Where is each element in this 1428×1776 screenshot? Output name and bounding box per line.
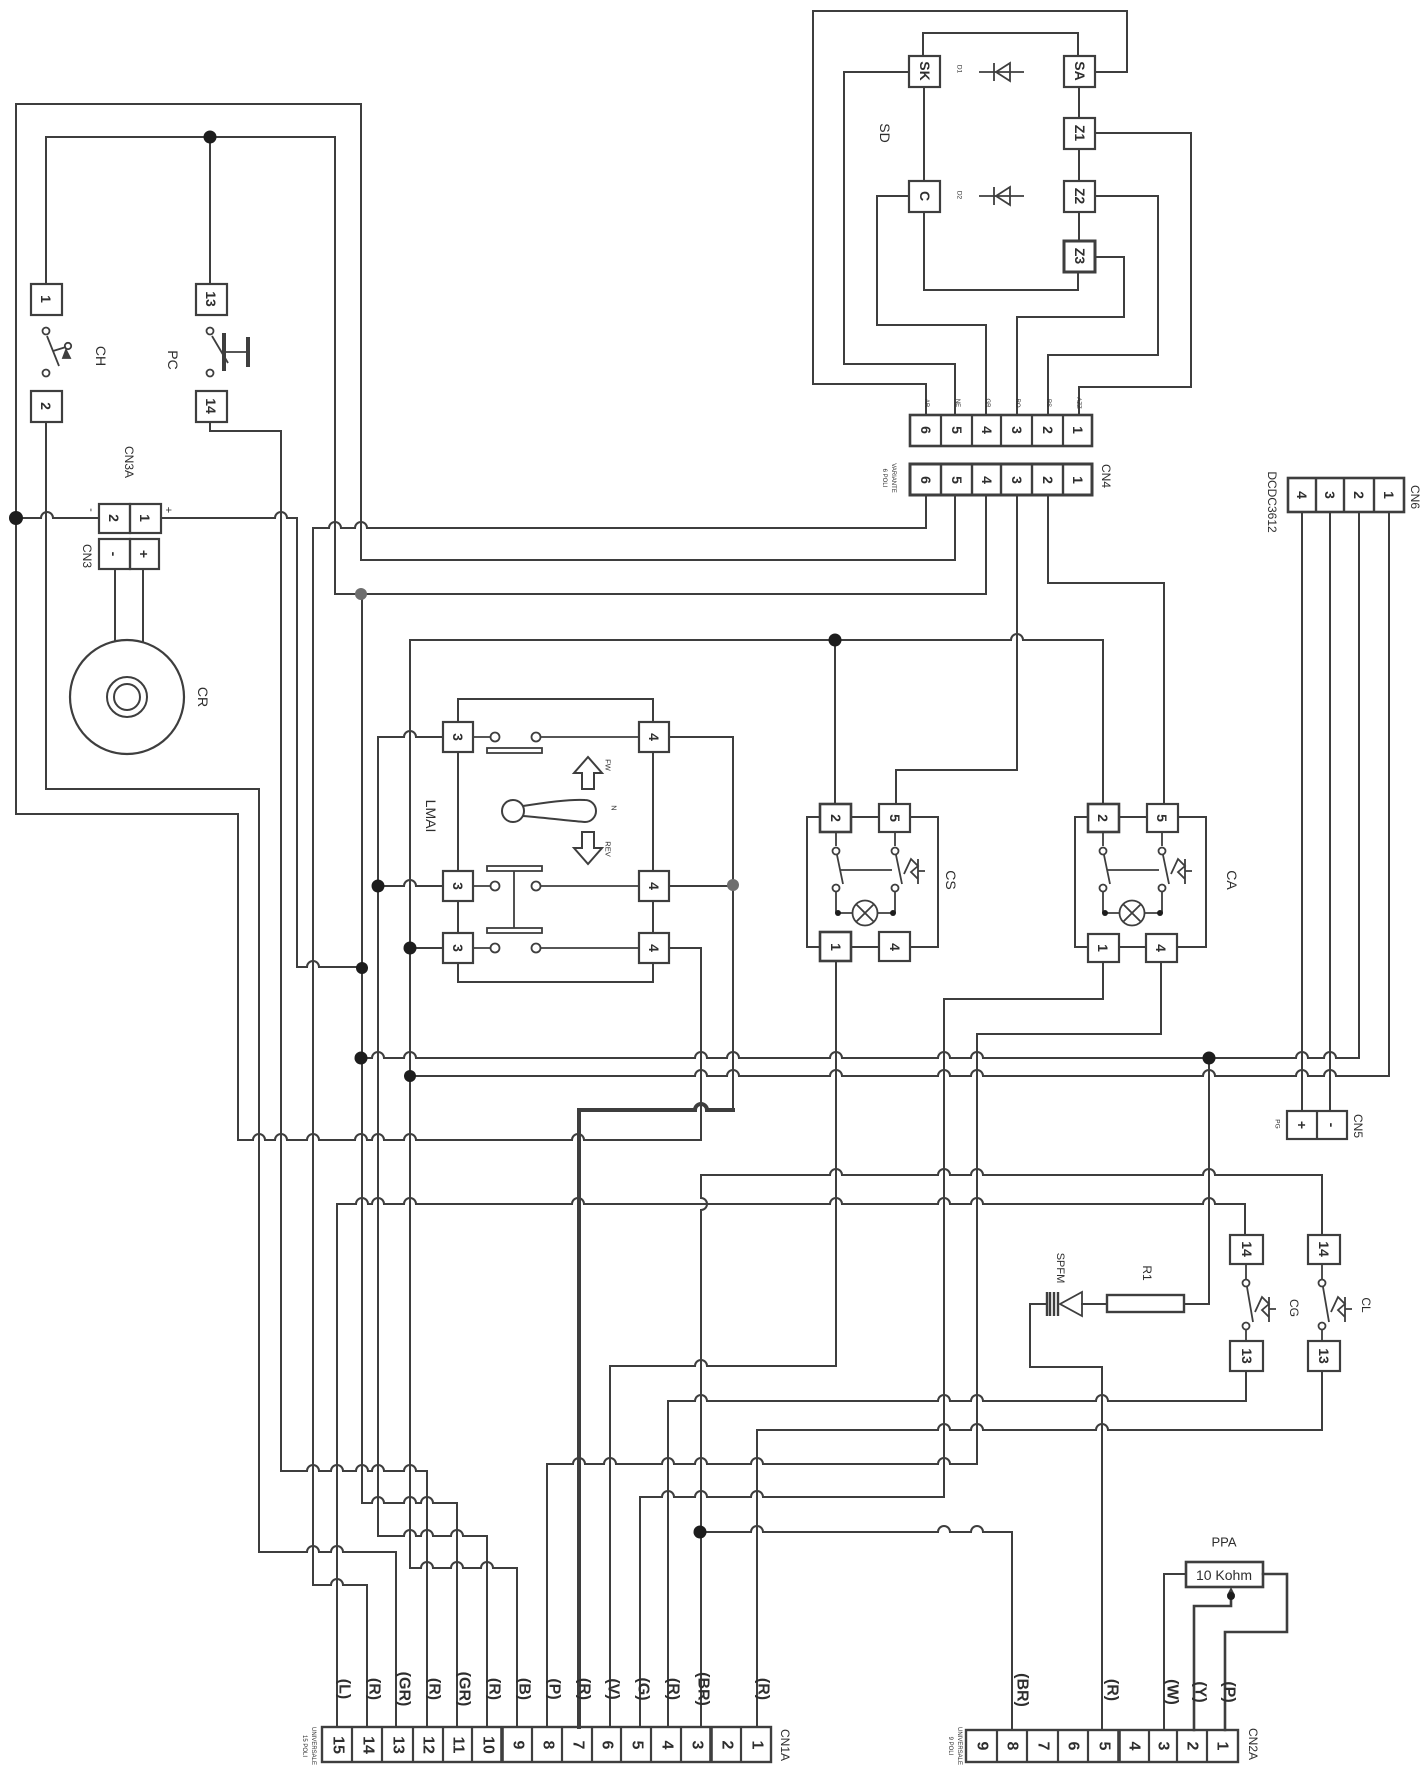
wire: CN3 to CR motor leads	[115, 569, 143, 641]
svg-text:2: 2	[1040, 476, 1056, 484]
svg-text:RO: RO	[1014, 399, 1020, 408]
wire: riser x701 LMAI row3 to bus1140	[700, 948, 702, 1140]
svg-text:3: 3	[450, 944, 466, 952]
svg-text:DCDC3612: DCDC3612	[1265, 471, 1279, 533]
wire: x335 vertical to y594 line	[334, 137, 336, 594]
svg-text:GR: GR	[984, 399, 990, 409]
node x361 y1058	[355, 1052, 368, 1065]
svg-text:CA: CA	[1224, 870, 1240, 890]
motor CR body	[70, 640, 184, 754]
svg-text:8: 8	[1004, 1742, 1021, 1751]
wire: y1552 staircase to pin13	[259, 1546, 396, 1552]
svg-text:CN3A: CN3A	[122, 446, 136, 478]
wire: outer frame top y104	[16, 103, 361, 105]
svg-text:D1: D1	[956, 65, 963, 74]
selector LMAI FW arrow	[574, 757, 602, 789]
svg-text:5: 5	[949, 426, 965, 434]
wire: CN3A row right to corner x297	[161, 512, 297, 518]
svg-text:9 POLI: 9 POLI	[947, 1737, 953, 1756]
wire: CN4 pin2 to CA5	[1048, 495, 1164, 802]
wire: Z2 right to upper pin2	[1048, 196, 1158, 415]
wire: pin6 drop x610	[609, 1366, 611, 1727]
wire: row y1430 CL13 to pin1	[757, 1424, 1322, 1430]
svg-text:13: 13	[203, 291, 219, 307]
svg-text:(W): (W)	[1164, 1679, 1181, 1705]
svg-text:4: 4	[1294, 491, 1310, 499]
svg-text:3: 3	[450, 882, 466, 890]
svg-text:CR: CR	[195, 687, 211, 707]
wire: CG14 drop x1245	[1244, 1204, 1246, 1235]
svg-text:(L): (L)	[336, 1679, 353, 1699]
wire: CS2 drop from node y640	[834, 640, 836, 802]
svg-text:CN5: CN5	[1351, 1114, 1365, 1138]
wire: LMAI row2 left from x378	[378, 880, 443, 886]
svg-text:6: 6	[599, 1741, 616, 1750]
svg-text:(GR): (GR)	[396, 1672, 413, 1707]
wire: pin14 drop x367	[366, 1585, 368, 1727]
wire: x378 down to y1536	[377, 737, 379, 1536]
wire: line y640 LMAI row3 to CA2	[410, 634, 1103, 802]
wire: frame left vertical x16 top to node	[15, 104, 17, 518]
connector CN3 cell minus	[99, 539, 130, 569]
svg-text:(BR): (BR)	[695, 1672, 712, 1706]
svg-text:14: 14	[360, 1736, 377, 1754]
svg-text:1: 1	[137, 514, 153, 522]
wire: LMAI row2 right	[668, 885, 733, 887]
pushbutton PC contacts and plunger	[207, 328, 249, 377]
svg-text:2: 2	[828, 814, 844, 822]
svg-text:4: 4	[979, 426, 995, 434]
svg-text:CS: CS	[943, 870, 959, 889]
svg-text:6: 6	[918, 476, 934, 484]
connector CN3A cell 1	[130, 504, 161, 533]
svg-text:13: 13	[1316, 1348, 1332, 1364]
svg-text:1: 1	[38, 295, 54, 303]
svg-text:4: 4	[646, 944, 662, 952]
wire: CN2A pin8 drop x1012	[1011, 1532, 1013, 1730]
svg-text:4: 4	[1126, 1742, 1143, 1751]
svg-text:(BR): (BR)	[1014, 1673, 1031, 1707]
wire: LMAI row3 right	[668, 947, 701, 949]
selector LMAI row3 contacts	[487, 928, 542, 953]
wire: C left to upper pin4	[877, 196, 986, 415]
wire: bus y1140 to LMAI row3 riser	[238, 1134, 701, 1140]
svg-text:(R): (R)	[486, 1678, 503, 1700]
selector LMAI row1 contacts	[487, 733, 542, 754]
svg-text:6: 6	[1065, 1742, 1082, 1751]
svg-text:2: 2	[38, 402, 54, 410]
wire: CN6 pin2 riser x1359	[1358, 513, 1360, 1058]
svg-text:R1: R1	[1140, 1265, 1154, 1281]
wire: pin4 drop x668	[667, 1401, 669, 1727]
wire: pin5 drop x640	[639, 1497, 641, 1727]
connector CN1A row	[322, 1727, 771, 1762]
wire: x733 down to bold corner	[732, 737, 734, 1110]
wire: PC14 down then right	[210, 422, 281, 431]
wire: C bottom loop to Z3	[924, 212, 1078, 290]
wire: CN4 pin6 stub	[925, 495, 927, 528]
grey node x361 y594	[355, 588, 367, 600]
connector CN1A pin numbers	[301, 1672, 792, 1765]
svg-text:(G): (G)	[635, 1677, 652, 1700]
wire: x701 vertical y1175 to pin3 with hop over bus1204	[701, 1175, 707, 1727]
svg-text:2: 2	[1040, 426, 1056, 434]
svg-text:10: 10	[480, 1736, 497, 1754]
wire: row y1532 node to CN2A pin8	[700, 1526, 1012, 1532]
connector SD-side 6pole row	[910, 415, 1092, 446]
wire: x361 vertical from frame to CN4 pin5 row	[360, 104, 362, 560]
wire: bus y1058 to CN6 pin2	[361, 1052, 1359, 1058]
svg-text:SPFM: SPFM	[1054, 1253, 1066, 1284]
svg-text:3: 3	[1009, 476, 1025, 484]
svg-text:(R): (R)	[1104, 1679, 1121, 1701]
svg-text:(P): (P)	[1221, 1681, 1238, 1702]
wire: pin1 drop x757	[756, 1430, 758, 1727]
wire: row y1464 to pin8	[547, 1458, 977, 1464]
wire: SD frame left to pin6	[813, 384, 926, 415]
svg-text:3: 3	[1009, 426, 1025, 434]
node CS2 feed y640	[829, 634, 842, 647]
switch unit CA outline	[1075, 817, 1206, 947]
wire: SK to C	[923, 87, 925, 181]
potentiometer PPA box	[1186, 1562, 1263, 1587]
svg-text:N: N	[610, 805, 619, 810]
wire: CA1 drop then left	[944, 962, 1103, 999]
wire: CA4 drop then left	[977, 962, 1161, 1034]
svg-text:RS: RS	[1045, 399, 1051, 407]
wire: y789 run right	[46, 788, 259, 790]
wire: y1503 staircase to pin11	[362, 1497, 457, 1503]
wire: Z3 right to upper pin3	[1017, 257, 1124, 415]
connector CN2A row	[966, 1730, 1238, 1762]
svg-text:5: 5	[887, 814, 903, 822]
wire: x977 down to y1464	[976, 1034, 978, 1464]
wire: pin8 drop x547	[546, 1464, 548, 1727]
svg-text:4: 4	[979, 476, 995, 484]
svg-text:7: 7	[570, 1741, 587, 1750]
svg-text:PPA: PPA	[1211, 1535, 1236, 1550]
svg-text:6 POLI: 6 POLI	[881, 469, 887, 488]
svg-text:PC: PC	[165, 350, 181, 369]
svg-text:2: 2	[1184, 1742, 1201, 1751]
wire: PPA wiper to CN2A pin2	[1194, 1596, 1231, 1730]
wire: row y1401 CG13 to pin4	[668, 1395, 1246, 1401]
svg-text:(P): (P)	[546, 1678, 563, 1699]
resistor R1	[1107, 1295, 1184, 1312]
svg-text:1: 1	[828, 943, 844, 951]
wire: x313 CN4pin6 vertical down	[312, 528, 314, 1585]
wire: CN4 pin3 long drop to CS5	[896, 495, 1017, 802]
svg-text:C: C	[917, 191, 933, 201]
svg-text:VARIANTE: VARIANTE	[890, 463, 896, 493]
relay contact CL box 14	[1308, 1235, 1340, 1264]
node x362 y968	[356, 962, 368, 974]
svg-text:Z3: Z3	[1072, 248, 1088, 265]
wire: y967 run to node x362	[297, 961, 362, 967]
svg-text:AZZ: AZZ	[1075, 397, 1081, 409]
svg-text:CG: CG	[1287, 1299, 1301, 1317]
wire: pin10 drop x487	[486, 1536, 488, 1727]
svg-text:1: 1	[749, 1741, 766, 1750]
relay contact CL switch	[1319, 1264, 1353, 1341]
wire: CL14 drop x1322	[1321, 1175, 1323, 1235]
diode block SD connection boxes SK C SA Z1 Z2 Z3	[909, 56, 940, 87]
selector LMAI internal row wires	[473, 737, 639, 948]
wire: CN4 pin4 line y594	[335, 593, 986, 595]
svg-text:LMAI: LMAI	[423, 800, 439, 833]
svg-text:2: 2	[719, 1741, 736, 1750]
relay contact CG box 13	[1230, 1341, 1263, 1371]
wire: CN4 pin4 stub	[985, 495, 987, 594]
connector CN3A cell 2	[99, 504, 130, 533]
wire: CH2 down to corner y789	[45, 422, 47, 789]
svg-text:7: 7	[1035, 1742, 1052, 1751]
svg-text:2: 2	[1095, 814, 1111, 822]
svg-text:SK: SK	[917, 61, 933, 80]
wire: bold pin7 drop x579	[577, 1110, 581, 1727]
svg-text:CN1A: CN1A	[778, 1729, 792, 1761]
wire: CL13 drop to row1430	[1321, 1371, 1323, 1430]
svg-text:1: 1	[1070, 426, 1086, 434]
connector CN5 row	[1287, 1111, 1347, 1139]
svg-text:6: 6	[918, 426, 934, 434]
node x410 y1076	[404, 1070, 416, 1082]
svg-text:UNIVERSALE: UNIVERSALE	[956, 1727, 962, 1765]
switch unit CS outline	[807, 817, 938, 947]
relay contact CG switch	[1243, 1264, 1277, 1341]
svg-text:+: +	[162, 507, 174, 513]
wire: y1585 to pin14	[313, 1579, 367, 1585]
wire: x281 down to y1471	[280, 431, 282, 1471]
diode D1	[979, 63, 1024, 81]
wire: LMAI row1 right to x733	[668, 736, 733, 738]
svg-text:5: 5	[949, 476, 965, 484]
svg-text:3: 3	[1322, 491, 1338, 499]
svg-text:(R): (R)	[755, 1678, 772, 1700]
wire: pin13 drop x396	[395, 1552, 397, 1727]
svg-text:-: -	[106, 552, 122, 557]
svg-text:-: -	[1324, 1123, 1340, 1128]
wire: R1 right lead	[1184, 1303, 1209, 1305]
grey node x733 y886	[727, 879, 739, 891]
wire: CN6 pin1 riser x1389	[1388, 513, 1390, 1076]
svg-text:(R): (R)	[576, 1678, 593, 1700]
wire: pin15 drop x337 from y1204	[336, 1204, 338, 1727]
connector CN4 row	[910, 464, 1092, 495]
wire: CN4 pin6 line y528	[313, 522, 926, 528]
svg-text:+: +	[1294, 1121, 1310, 1129]
wire: pin11 drop x457	[456, 1503, 458, 1727]
svg-text:NE: NE	[954, 399, 960, 407]
svg-text:9: 9	[974, 1742, 991, 1751]
selector LMAI outline	[458, 699, 653, 982]
svg-text:13: 13	[390, 1736, 407, 1754]
wire: CH1 drop	[45, 137, 47, 284]
diode SPFM symbol	[1047, 1292, 1082, 1316]
wire: bus y1204 from pin15 to CG14 corner	[337, 1198, 1245, 1204]
wire: LMAI row3 left from x410	[410, 947, 443, 949]
switch CH contacts and blade	[43, 328, 72, 377]
wire: CN4 pin5 stub	[954, 495, 956, 560]
wire: row y1497 to pin5	[640, 1491, 944, 1497]
wire: bold feed y1110	[579, 1104, 733, 1110]
wire: Z2 to Z3	[1078, 212, 1080, 241]
pushbutton PC pin box 14	[196, 391, 227, 422]
svg-text:1: 1	[1095, 944, 1111, 952]
wire: CG13 drop to row1401	[1245, 1371, 1247, 1401]
switch CH pin box 2	[31, 391, 62, 422]
wire: SD inner top loop	[923, 33, 1078, 56]
selector LMAI row2 contacts	[487, 866, 542, 928]
switch unit CA internals	[1100, 832, 1193, 926]
node LMAI row3 left	[404, 942, 417, 955]
svg-text:3: 3	[450, 733, 466, 741]
wire: SPFM route down to CN2A pin5	[1030, 1304, 1102, 1730]
svg-text:CN2A: CN2A	[1246, 1728, 1260, 1760]
svg-text:-: -	[85, 508, 97, 512]
wire: SD frame right to SA	[1095, 11, 1127, 72]
node x1209 y1058	[1203, 1052, 1216, 1065]
svg-text:5: 5	[1096, 1742, 1113, 1751]
switch unit CS boxes 2 5 1 4	[820, 804, 851, 832]
svg-text:9: 9	[510, 1741, 527, 1750]
wire: node x1209 drop to R1	[1208, 1058, 1210, 1304]
svg-text:3: 3	[1155, 1742, 1172, 1751]
svg-text:CH: CH	[93, 346, 109, 366]
selector LMAI row3 boxes 3 and 4	[443, 933, 473, 963]
switch CH pin box 1	[31, 284, 62, 315]
wire: Z1 right to upper pin1	[1079, 133, 1191, 415]
wire: x259 down to y1552	[258, 789, 260, 1552]
selector LMAI REV arrow	[574, 832, 602, 864]
svg-text:1: 1	[1214, 1742, 1231, 1751]
switch unit CS internals	[833, 832, 926, 926]
lamp lead nodes CS	[835, 910, 841, 916]
relay contact CG box 14	[1230, 1235, 1263, 1264]
wire: x297 down to y967	[296, 518, 298, 967]
svg-text:1: 1	[1381, 491, 1397, 499]
wire: row y1366 CS1 to pin6	[610, 1360, 836, 1366]
diode D2	[979, 187, 1024, 205]
wire: inner line y137 CH1 to x335	[46, 136, 335, 138]
wire: bus y1076 to CN6 pin1	[410, 1070, 1389, 1076]
svg-text:(R): (R)	[366, 1678, 383, 1700]
selector LMAI lever	[502, 800, 524, 822]
svg-text:14: 14	[203, 398, 219, 414]
svg-text:Z2: Z2	[1072, 188, 1088, 205]
svg-text:(V): (V)	[605, 1678, 622, 1699]
svg-text:UNIVERSALE: UNIVERSALE	[310, 1727, 316, 1765]
wire: PPA left lead to CN2A pin3	[1164, 1574, 1186, 1730]
svg-text:(GR): (GR)	[456, 1672, 473, 1707]
svg-text:4: 4	[887, 943, 903, 951]
wire: node x16 down to y814 corner	[16, 518, 238, 814]
wire: pin12 drop x427	[426, 1471, 428, 1727]
wire: SPFM left lead	[1030, 1303, 1047, 1305]
node x701 y1532	[694, 1526, 707, 1539]
wire: x362 vertical grey node to pin11 staircase	[361, 594, 363, 1503]
svg-text:3: 3	[689, 1741, 706, 1750]
svg-text:12: 12	[420, 1736, 437, 1754]
connector CN3 cell plus	[130, 539, 159, 569]
wire: CS1 drop to row1366	[835, 961, 837, 1366]
wire: CN3A row left from node	[16, 512, 99, 518]
svg-text:CL: CL	[1359, 1297, 1373, 1313]
svg-text:4: 4	[659, 1741, 676, 1750]
wire: CN6 pin3 to CN5 minus	[1329, 513, 1331, 1111]
svg-text:2: 2	[1351, 491, 1367, 499]
pushbutton PC pin box 13	[196, 284, 227, 315]
svg-text:(R): (R)	[426, 1678, 443, 1700]
svg-text:8: 8	[540, 1741, 557, 1750]
svg-text:CN3: CN3	[80, 544, 94, 568]
wire: CN4 pin5 line y560	[361, 559, 955, 561]
wire: Z1 to Z2	[1078, 149, 1080, 181]
svg-text:14: 14	[1316, 1241, 1332, 1257]
svg-text:2: 2	[106, 514, 122, 522]
svg-text:SD: SD	[877, 123, 893, 142]
motor CR inner rings	[107, 677, 147, 717]
wire: y1536 staircase to pin10	[378, 1530, 487, 1536]
wire: SD frame left x813	[812, 11, 814, 384]
wire: y1471 staircase to pin12	[281, 1465, 427, 1471]
wire: SK left to upper pin5	[844, 72, 955, 415]
svg-text:Z1: Z1	[1072, 125, 1088, 142]
svg-text:FW: FW	[604, 759, 613, 772]
node on line y137 at PC	[204, 131, 217, 144]
svg-text:(R): (R)	[665, 1678, 682, 1700]
relay contact CL box 13	[1308, 1341, 1340, 1371]
svg-text:REV: REV	[604, 841, 613, 856]
wire: R1 left lead to SPFM	[1082, 1303, 1107, 1305]
wire: PPA right lead to CN2A pin1	[1225, 1574, 1287, 1730]
svg-text:(B): (B)	[516, 1678, 533, 1700]
wire: PC13 drop from node	[209, 137, 211, 284]
switch unit CA boxes 2 5 1 4	[1088, 804, 1119, 832]
connector CN6 row	[1288, 478, 1404, 512]
svg-text:SA: SA	[1072, 61, 1088, 80]
svg-text:15 POLI: 15 POLI	[301, 1735, 307, 1757]
wire: SA to Z1	[1078, 87, 1080, 118]
svg-text:5: 5	[1154, 814, 1170, 822]
svg-text:CN6: CN6	[1408, 485, 1422, 509]
svg-text:5: 5	[629, 1741, 646, 1750]
svg-text:+: +	[136, 550, 152, 558]
wire: CN6 pin4 to CN5 plus	[1301, 513, 1303, 1111]
svg-text:(Y): (Y)	[1192, 1681, 1209, 1702]
node frame left CN3A row	[9, 511, 23, 525]
svg-text:4: 4	[646, 882, 662, 890]
wire: y1568 staircase to pin9	[410, 1562, 517, 1568]
svg-text:4: 4	[646, 733, 662, 741]
svg-text:PG: PG	[1274, 1119, 1281, 1128]
wire: x944 down to y1497	[943, 999, 945, 1497]
svg-text:14: 14	[1239, 1241, 1255, 1257]
wire: x410 vertical y640 to pin9 staircase	[409, 640, 411, 1568]
svg-text:13: 13	[1239, 1348, 1255, 1364]
svg-text:10 Kohm: 10 Kohm	[1196, 1567, 1252, 1583]
node PPA wiper	[1227, 1592, 1235, 1600]
wire: LMAI row1 left to x378	[378, 731, 443, 737]
svg-text:D2: D2	[956, 191, 963, 200]
wire: SD outer frame top y11	[813, 10, 1127, 12]
lamp lead nodes CA	[1102, 910, 1108, 916]
svg-text:AR: AR	[923, 399, 929, 408]
svg-text:11: 11	[450, 1737, 467, 1754]
node LMAI row2 left	[372, 880, 385, 893]
svg-text:CN4: CN4	[1099, 464, 1113, 488]
wire: row y1175 CL14 feed	[701, 1169, 1322, 1175]
